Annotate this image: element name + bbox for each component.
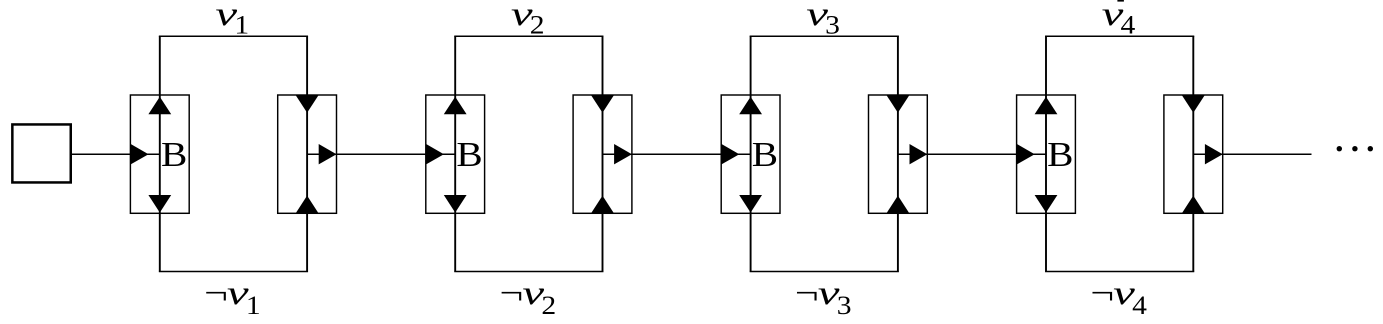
svg-text:B: B (1047, 135, 1073, 174)
svg-text:B: B (161, 135, 187, 174)
svg-text:3: 3 (837, 291, 852, 320)
svg-text:¬: ¬ (204, 275, 228, 312)
svg-text:B: B (456, 135, 482, 174)
svg-text:B: B (752, 135, 778, 174)
svg-text:2: 2 (541, 291, 556, 320)
svg-text:¬: ¬ (795, 275, 819, 312)
svg-text:1: 1 (234, 11, 249, 40)
svg-text:2: 2 (530, 11, 545, 40)
svg-text:4: 4 (1121, 11, 1136, 40)
svg-text:4: 4 (1132, 291, 1147, 320)
svg-text:1: 1 (246, 291, 261, 320)
svg-text:¬: ¬ (500, 275, 524, 312)
svg-text:¬: ¬ (1090, 275, 1114, 312)
svg-text:3: 3 (825, 11, 840, 40)
